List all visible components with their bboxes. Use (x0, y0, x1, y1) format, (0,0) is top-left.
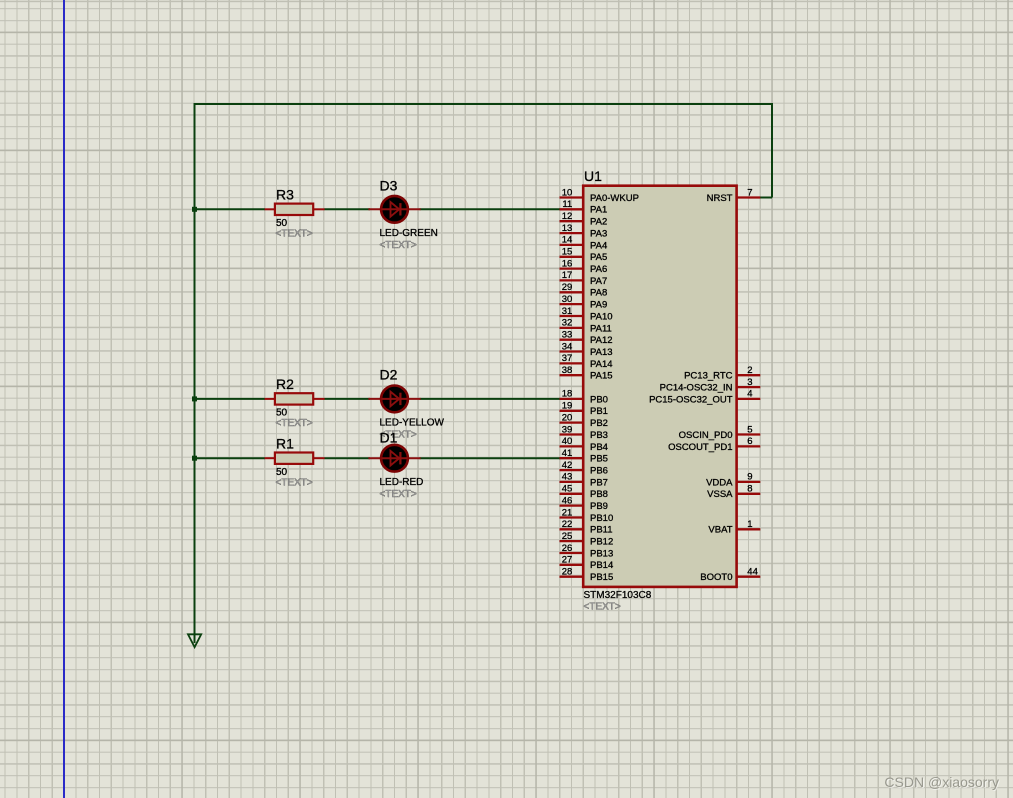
svg-text:<TEXT>: <TEXT> (380, 489, 417, 500)
svg-text:15: 15 (562, 247, 573, 258)
LED D1 (LED-RED) (368, 445, 420, 472)
node PA1 rail junction (192, 207, 197, 212)
svg-text:OSCIN_PD0: OSCIN_PD0 (679, 430, 733, 441)
pin 32 PA11 (560, 318, 612, 335)
MCU U1 body (583, 186, 736, 587)
pin 37 PA14 (560, 353, 613, 370)
svg-text:7: 7 (747, 187, 752, 198)
pin 7 NRST (707, 187, 761, 204)
svg-text:11: 11 (562, 199, 572, 210)
svg-text:D2: D2 (380, 366, 398, 382)
svg-text:39: 39 (562, 424, 573, 435)
svg-text:14: 14 (562, 235, 573, 246)
watermark CSDN (0, 774, 999, 790)
pin 26 PB13 (560, 543, 614, 560)
svg-text:45: 45 (562, 484, 573, 495)
svg-text:6: 6 (747, 436, 752, 447)
pin 19 PB1 (560, 401, 608, 418)
sheet border (blue line) (63, 0, 65, 798)
svg-text:1: 1 (747, 519, 752, 530)
pin 38 PA15 (560, 365, 613, 382)
svg-text:PA14: PA14 (590, 359, 613, 370)
wire: R1 to D1 (324, 457, 370, 459)
svg-text:OSCOUT_PD1: OSCOUT_PD1 (668, 442, 732, 453)
svg-text:50: 50 (276, 218, 288, 229)
svg-text:BOOT0: BOOT0 (700, 572, 732, 583)
svg-text:D3: D3 (380, 177, 398, 193)
svg-text:PA6: PA6 (590, 264, 607, 275)
svg-text:VBAT: VBAT (708, 525, 732, 536)
svg-text:12: 12 (562, 211, 573, 222)
svg-text:50: 50 (276, 408, 288, 419)
svg-text:PB4: PB4 (590, 442, 608, 453)
svg-text:PB9: PB9 (590, 501, 608, 512)
pin 14 PA4 (560, 235, 608, 252)
pin 39 PB3 (560, 424, 608, 441)
pin 8 VSSA (707, 484, 760, 501)
svg-text:<TEXT>: <TEXT> (276, 418, 313, 429)
pin 41 PB5 (560, 448, 608, 465)
svg-text:PB3: PB3 (590, 430, 608, 441)
wire: VCC top rail horizontal (195, 103, 773, 105)
pin 13 PA3 (560, 223, 608, 240)
wire: R3 to D3 (324, 208, 370, 210)
wire: junction to R2 (195, 398, 266, 400)
svg-text:33: 33 (562, 330, 573, 341)
svg-text:PA10: PA10 (590, 311, 613, 322)
pin 1 VBAT (708, 519, 760, 536)
svg-text:PC14-OSC32_IN: PC14-OSC32_IN (660, 383, 733, 394)
pin 11 PA1 (560, 199, 608, 216)
svg-text:28: 28 (562, 567, 573, 578)
pin 2 PC13_RTC (684, 365, 760, 382)
svg-text:32: 32 (562, 318, 573, 329)
svg-text:PB1: PB1 (590, 406, 608, 417)
svg-text:PB15: PB15 (590, 572, 613, 583)
svg-text:PA1: PA1 (590, 205, 607, 216)
pin 5 OSCIN_PD0 (679, 424, 761, 441)
pin 45 PB8 (560, 484, 608, 501)
ground (188, 634, 201, 647)
svg-text:27: 27 (562, 555, 573, 566)
svg-text:R1: R1 (276, 435, 294, 451)
svg-text:10: 10 (562, 187, 573, 198)
LED D3 (LED-GREEN) (368, 196, 420, 223)
pin 16 PA6 (560, 258, 608, 275)
svg-text:8: 8 (747, 484, 752, 495)
svg-text:PA15: PA15 (590, 371, 613, 382)
svg-text:PB2: PB2 (590, 418, 608, 429)
svg-text:PA0-WKUP: PA0-WKUP (590, 193, 639, 204)
svg-text:PA4: PA4 (590, 240, 607, 251)
pin 20 PB2 (560, 412, 608, 429)
svg-text:PA13: PA13 (590, 347, 613, 358)
svg-text:PC15-OSC32_OUT: PC15-OSC32_OUT (649, 394, 733, 405)
svg-text:D1: D1 (380, 430, 398, 446)
svg-text:31: 31 (562, 306, 573, 317)
pin 9 VDDA (706, 472, 760, 489)
pin 4 PC15-OSC32_OUT (649, 389, 760, 406)
svg-text:PB10: PB10 (590, 513, 613, 524)
svg-text:17: 17 (562, 270, 573, 281)
pin 25 PB12 (560, 531, 614, 548)
svg-text:19: 19 (562, 401, 573, 412)
svg-text:<TEXT>: <TEXT> (584, 602, 621, 613)
pin 21 PB10 (560, 507, 614, 524)
svg-text:<TEXT>: <TEXT> (276, 229, 313, 240)
svg-text:20: 20 (562, 412, 573, 423)
svg-text:LED-YELLOW: LED-YELLOW (380, 418, 445, 429)
svg-text:PB11: PB11 (590, 525, 613, 536)
svg-text:25: 25 (562, 531, 573, 542)
svg-text:34: 34 (562, 341, 573, 352)
svg-text:16: 16 (562, 258, 573, 269)
wire: junction to R1 (195, 457, 266, 459)
pin 10 PA0-WKUP (560, 187, 639, 204)
wire: D3 to U1 (420, 208, 561, 210)
svg-text:18: 18 (562, 389, 573, 400)
node PB5 rail junction (192, 456, 197, 461)
svg-text:9: 9 (747, 472, 752, 483)
svg-text:41: 41 (562, 448, 573, 459)
svg-text:26: 26 (562, 543, 573, 554)
svg-text:PB7: PB7 (590, 477, 608, 488)
pin 31 PA10 (560, 306, 613, 323)
pin 30 PA9 (560, 294, 608, 311)
svg-text:37: 37 (562, 353, 573, 364)
svg-text:NRST: NRST (707, 193, 733, 204)
pin 18 PB0 (560, 389, 608, 406)
pin 15 PA5 (560, 247, 608, 264)
svg-text:PA9: PA9 (590, 300, 607, 311)
svg-text:2: 2 (747, 365, 752, 376)
svg-text:PB14: PB14 (590, 560, 613, 571)
svg-text:38: 38 (562, 365, 573, 376)
wire: left vertical bus to ground (194, 103, 196, 643)
svg-text:LED-RED: LED-RED (380, 477, 424, 488)
svg-text:PB5: PB5 (590, 454, 608, 465)
resistor R1 (265, 453, 325, 464)
svg-text:43: 43 (562, 472, 573, 483)
pin 34 PA13 (560, 341, 613, 358)
svg-text:U1: U1 (584, 168, 602, 184)
pin 22 PB11 (560, 519, 613, 536)
svg-text:46: 46 (562, 495, 573, 506)
LED D2 (LED-YELLOW) (368, 386, 420, 413)
svg-text:<TEXT>: <TEXT> (276, 477, 313, 488)
wire: right vertical to NRST (771, 103, 773, 198)
svg-text:22: 22 (562, 519, 573, 530)
pin 6 OSCOUT_PD1 (668, 436, 760, 453)
svg-text:4: 4 (747, 389, 752, 400)
svg-text:PB13: PB13 (590, 548, 613, 559)
svg-text:PA5: PA5 (590, 252, 607, 263)
svg-text:PA7: PA7 (590, 276, 607, 287)
svg-text:PB6: PB6 (590, 466, 608, 477)
svg-text:R2: R2 (276, 376, 294, 392)
wire: D2 to U1 (420, 398, 561, 400)
svg-text:PA11: PA11 (590, 323, 612, 334)
svg-text:PA2: PA2 (590, 217, 607, 228)
svg-text:44: 44 (747, 567, 758, 578)
wire: D1 to U1 (420, 457, 561, 459)
svg-text:50: 50 (276, 467, 288, 478)
resistor R3 (265, 204, 325, 215)
svg-text:R3: R3 (276, 187, 294, 203)
svg-text:30: 30 (562, 294, 573, 305)
pin 43 PB7 (560, 472, 608, 489)
svg-text:PA12: PA12 (590, 335, 613, 346)
svg-text:PB0: PB0 (590, 394, 608, 405)
pin 28 PB15 (560, 567, 614, 584)
pin 17 PA7 (560, 270, 608, 287)
pin 3 PC14-OSC32_IN (660, 377, 761, 394)
pin 33 PA12 (560, 330, 613, 347)
svg-text:29: 29 (562, 282, 573, 293)
svg-text:STM32F103C8: STM32F103C8 (584, 590, 652, 601)
resistor R2 (265, 393, 325, 404)
svg-text:PB12: PB12 (590, 537, 613, 548)
svg-text:21: 21 (562, 507, 573, 518)
pin 27 PB14 (560, 555, 614, 572)
wire: R2 to D2 (324, 398, 370, 400)
svg-text:13: 13 (562, 223, 573, 234)
pin 29 PA8 (560, 282, 608, 299)
svg-text:42: 42 (562, 460, 573, 471)
svg-text:VSSA: VSSA (707, 489, 733, 500)
svg-text:PB8: PB8 (590, 489, 608, 500)
pin 46 PB9 (560, 495, 608, 512)
pin 12 PA2 (560, 211, 608, 228)
svg-text:VDDA: VDDA (706, 477, 733, 488)
svg-text:5: 5 (747, 424, 752, 435)
svg-text:3: 3 (747, 377, 752, 388)
node PB0 rail junction (192, 396, 197, 401)
svg-text:LED-GREEN: LED-GREEN (380, 228, 438, 239)
svg-text:40: 40 (562, 436, 573, 447)
pin 42 PB6 (560, 460, 608, 477)
svg-text:PA3: PA3 (590, 229, 607, 240)
wire: junction to R3 (195, 208, 266, 210)
svg-text:<TEXT>: <TEXT> (380, 240, 417, 251)
pin 44 BOOT0 (700, 567, 760, 584)
wire: NRST link (760, 197, 773, 199)
svg-text:PC13_RTC: PC13_RTC (684, 371, 733, 382)
svg-text:PA8: PA8 (590, 288, 607, 299)
pin 40 PB4 (560, 436, 608, 453)
